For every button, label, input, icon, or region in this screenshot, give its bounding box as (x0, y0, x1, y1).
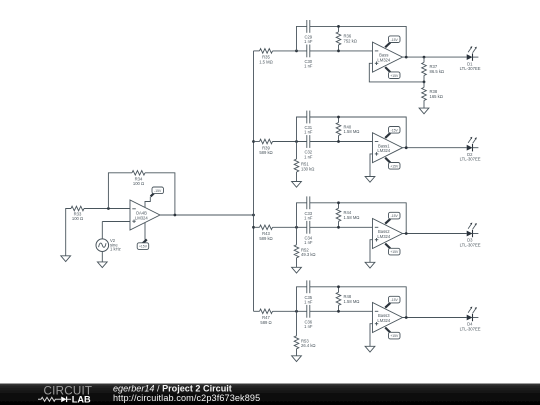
resistor R43 (589 kΩ) (260, 225, 273, 230)
output junction D1 (405, 56, 408, 59)
svg-text:1.58 MΩ: 1.58 MΩ (344, 215, 360, 220)
wire riser node A to top rail D2 (297, 117, 307, 142)
power flag -15V D1 top (385, 43, 390, 48)
power flag -15V OA4B bottom (144, 223, 146, 240)
svg-text:1 nF: 1 nF (304, 154, 313, 159)
svg-text:1 kHz: 1 kHz (110, 247, 121, 252)
junction bus stage 2 (252, 140, 255, 143)
wire feedback loop left/top (108, 173, 132, 209)
wire R33 left leg (66, 209, 71, 256)
resistor R38 (165 k) (423, 82, 425, 88)
ground at op-amp plus input D2 (365, 177, 375, 183)
ground under R51 (292, 182, 302, 188)
svg-text:LM324: LM324 (377, 318, 390, 323)
resistor R53 (26.4 kΩ) (294, 336, 299, 349)
capacitor C34 (1 nF) (306, 221, 308, 234)
power flag -15V D3 top (385, 219, 390, 224)
wire OA4B output (160, 214, 254, 216)
ground under R38 (419, 108, 429, 114)
power flag +15V D3 bottom (385, 244, 390, 249)
op-amp OA4B LM324 (130, 200, 160, 230)
svg-text:LTL-307EE: LTL-307EE (460, 157, 481, 162)
wire output D1 (403, 56, 467, 58)
svg-text:752 kΩ: 752 kΩ (344, 38, 357, 43)
node A junction D3 (295, 226, 298, 229)
wire node A down to R53 (296, 311, 298, 336)
svg-text:1 nF: 1 nF (304, 240, 313, 245)
junction at R37 top (423, 56, 426, 59)
wire output D3 (403, 233, 467, 235)
wire stage D2 input from bus (254, 141, 260, 143)
op-amp Bass3 LM324 (373, 303, 403, 333)
resistor R44 (1.58 MΩ) (338, 203, 340, 209)
svg-text:+15V: +15V (390, 334, 399, 338)
wire riser node A to top rail D1 (297, 26, 307, 51)
output junction D2 (405, 146, 408, 149)
wire op-amp plus input to ground D3 (370, 240, 373, 263)
wire output D2 (403, 147, 467, 149)
LED D1 LTL-307EE (467, 54, 473, 60)
wire stage D1 input from bus (254, 50, 260, 52)
CircuitLab logo resistor-diode symbol (38, 397, 61, 401)
svg-text:100 Ω: 100 Ω (133, 181, 144, 186)
resistor R48 (1.58 MΩ) (338, 287, 340, 293)
wire feedback loop right (145, 173, 175, 215)
svg-text:LM324: LM324 (135, 215, 148, 220)
wire D1 node A to op-amp minus (273, 50, 307, 52)
power flag +15V D1 bottom (385, 67, 390, 72)
svg-text:1.58 MΩ: 1.58 MΩ (344, 299, 360, 304)
wire top rail to output D1 (310, 26, 406, 57)
resistor R37 (86.5 k) (423, 57, 425, 62)
svg-text:1 nF: 1 nF (304, 130, 313, 135)
junction bus stage 3 (252, 226, 255, 229)
wire op-amp plus input to ground D4 (370, 324, 373, 347)
svg-text:LM324: LM324 (377, 234, 390, 239)
svg-text:-15V: -15V (391, 214, 399, 218)
junction feedback/output (174, 214, 177, 217)
svg-text:-15V: -15V (391, 128, 399, 132)
op-amp Bass2 LM324 (373, 219, 403, 249)
wire top rail to output D2 (310, 117, 406, 148)
capacitor C30 (1 nF) (306, 45, 308, 58)
op-amp Bass LM324 (373, 42, 403, 72)
wire riser node A to top rail D3 (297, 203, 307, 228)
svg-text:LTL-307EE: LTL-307EE (460, 242, 481, 247)
voltage source V2 sine 1 kHz (101, 222, 103, 239)
power flag +15V D2 bottom (385, 158, 390, 163)
junction R37/R38 (423, 81, 426, 84)
wire top rail to output D4 (310, 287, 406, 318)
svg-text:+15V: +15V (390, 250, 399, 254)
wire stage D3 input from bus (254, 226, 260, 228)
ground at R33 left (61, 256, 71, 262)
resistor R36 (752 kΩ) (338, 26, 340, 32)
wire V2 minus to ground (101, 252, 103, 262)
svg-text:130 kΩ: 130 kΩ (301, 166, 314, 171)
resistor R34 (100 ohm) feedback (132, 171, 145, 176)
svg-text:165 kΩ: 165 kΩ (430, 94, 443, 99)
svg-text:LTL-307EE: LTL-307EE (460, 326, 481, 331)
ground under R53 (292, 356, 302, 362)
power flag -15V D2 top (385, 133, 390, 138)
capacitor C36 (1 nF) (306, 305, 308, 318)
svg-text:1.5 MΩ: 1.5 MΩ (259, 59, 273, 64)
ground at op-amp plus input D4 (365, 346, 375, 352)
svg-text:49.3 kΩ: 49.3 kΩ (301, 252, 316, 257)
svg-text:1 nF: 1 nF (304, 39, 313, 44)
resistor R51 (130 kΩ) (294, 159, 299, 172)
LED D2 LTL-307EE (467, 145, 473, 151)
wire V2 plus to op-amp plus input (102, 221, 130, 223)
power flag +15V OA4B top (145, 197, 150, 207)
svg-text:+15V: +15V (139, 245, 148, 249)
junction output to bus (252, 214, 255, 217)
resistor R35 (1.5 MΩ) (260, 49, 273, 54)
wire riser node A to top rail D4 (297, 287, 307, 312)
capacitor C31 (1 nF) (306, 111, 308, 124)
ground under R52 (292, 267, 302, 273)
wire output D4 (403, 317, 467, 319)
LED D3 LTL-307EE (467, 231, 473, 237)
svg-text:-15V: -15V (154, 189, 162, 193)
wire node A down to R52 (296, 227, 298, 245)
LED D4 LTL-307EE (467, 315, 473, 321)
output junction D3 (405, 232, 408, 235)
node A junction D4 (295, 310, 298, 313)
node A junction D1 (295, 50, 298, 53)
svg-text:+15V: +15V (390, 74, 399, 78)
svg-text:LM324: LM324 (377, 148, 390, 153)
resistor R52 (49.3 kΩ) (294, 245, 299, 258)
wire R33 to op-amp minus (84, 208, 130, 210)
output junction D4 (405, 316, 408, 319)
capacitor C33 (1 nF) (306, 196, 308, 209)
svg-text:589 kΩ: 589 kΩ (259, 150, 272, 155)
svg-text:589 kΩ: 589 kΩ (259, 236, 272, 241)
capacitor C35 (1 nF) (306, 280, 308, 293)
op-amp Bass1 LM324 (373, 133, 403, 163)
ground under V2 (97, 262, 107, 268)
wire D2 node A to op-amp minus (273, 141, 307, 143)
svg-text:1 nF: 1 nF (304, 64, 313, 69)
svg-text:LM324: LM324 (377, 57, 390, 62)
svg-text:LAB: LAB (72, 395, 91, 405)
svg-text:1.58 MΩ: 1.58 MΩ (344, 129, 360, 134)
power flag +15V D4 bottom (385, 328, 390, 333)
svg-text:LTL-307EE: LTL-307EE (460, 66, 481, 71)
node at minus input (107, 207, 110, 210)
svg-text:-15V: -15V (391, 298, 399, 302)
svg-text:1 nF: 1 nF (304, 324, 313, 329)
svg-text:+15V: +15V (390, 164, 399, 168)
resistor R33 (100 ohm) (71, 206, 84, 211)
svg-text:1 nF: 1 nF (304, 216, 313, 221)
wire D4 node A to op-amp minus (273, 310, 307, 312)
wire node A down to R51 (296, 142, 298, 160)
node A junction D2 (295, 140, 298, 143)
wire op-amp plus input to ground D2 (370, 154, 373, 177)
resistor R39 (589 kΩ) (260, 139, 273, 144)
resistor R40 (1.58 MΩ) (338, 117, 340, 123)
wire stage D4 input from bus (254, 310, 260, 312)
capacitor C29 (1 nF) (306, 20, 308, 33)
svg-text:86.5 kΩ: 86.5 kΩ (430, 69, 445, 74)
wire D3 node A to op-amp minus (273, 226, 307, 228)
resistor R47 (589 Ω) (260, 309, 273, 314)
wire op-amp plus input to divider D1 (369, 63, 424, 82)
svg-text:589 Ω: 589 Ω (260, 320, 271, 325)
svg-text:http://circuitlab.com/c2p3f673: http://circuitlab.com/c2p3f673ek895 (113, 393, 260, 403)
capacitor C32 (1 nF) (306, 135, 308, 148)
wire vertical bus (253, 51, 255, 311)
svg-text:1 nF: 1 nF (304, 300, 313, 305)
svg-text:100 Ω: 100 Ω (72, 216, 83, 221)
svg-text:-15V: -15V (391, 38, 399, 42)
wire top rail to output D3 (310, 203, 406, 234)
power flag -15V D4 top (385, 303, 390, 308)
svg-text:26.4 kΩ: 26.4 kΩ (301, 343, 316, 348)
ground at op-amp plus input D3 (365, 262, 375, 268)
